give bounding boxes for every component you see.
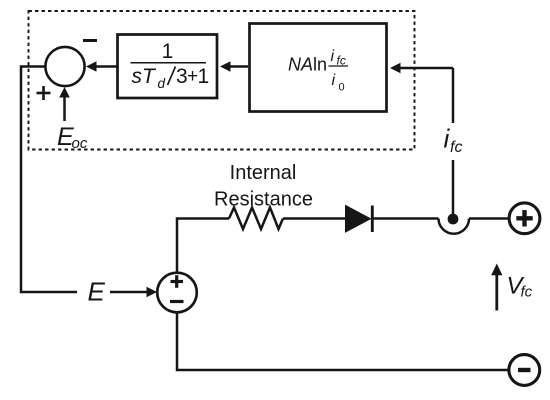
svg-text:1: 1: [198, 65, 210, 88]
svg-text:0: 0: [339, 82, 345, 94]
arrow E into source: [110, 287, 157, 298]
positive terminal: [509, 203, 540, 234]
svg-text:NA: NA: [288, 55, 313, 75]
svg-text:fc: fc: [450, 139, 462, 156]
negative terminal: [509, 355, 540, 386]
arrow from U2 to U1: [220, 61, 248, 72]
controlled voltage source E: [157, 273, 197, 313]
svg-text:ln: ln: [313, 55, 327, 75]
resistor R internal: [229, 208, 283, 230]
arrow Vfc: [491, 264, 502, 311]
wire diode to current tap: [373, 217, 439, 220]
wire resistor to diode: [283, 217, 346, 220]
svg-text:oc: oc: [72, 135, 88, 152]
label Eoc: [57, 123, 88, 152]
arrow Eoc into summing junction: [59, 87, 70, 121]
svg-text:E: E: [88, 277, 106, 307]
svg-text:1: 1: [162, 40, 174, 63]
plus sign at summing junction: [37, 86, 51, 100]
current tap hump: [439, 219, 470, 234]
label E: [88, 277, 106, 307]
diode D1: [346, 206, 373, 233]
svg-text:Internal: Internal: [230, 162, 297, 184]
svg-text:+: +: [187, 66, 198, 87]
wire source top to resistor: [177, 219, 229, 273]
block U1 transfer function 1/(sTd/3+1): [118, 35, 218, 99]
summing junction U3: [45, 47, 84, 86]
block U2 NA ln(ifc/i0): [250, 24, 387, 112]
svg-text:sT: sT: [132, 65, 158, 88]
label Vfc: [507, 273, 533, 301]
svg-text:fc: fc: [521, 284, 533, 301]
svg-text:3: 3: [176, 65, 188, 88]
svg-text:i: i: [332, 72, 336, 89]
bottom wire source to negative terminal: [177, 312, 508, 370]
wire ifc vertical lower segment: [452, 160, 455, 219]
label ifc: [444, 124, 463, 157]
svg-text:i: i: [331, 48, 335, 65]
arrow from U1 to summing junction: [86, 61, 117, 72]
wire tap to positive terminal: [469, 217, 508, 220]
wire summing junction output to left and down: [21, 67, 77, 293]
minus sign at summing junction: [83, 39, 97, 42]
svg-text:Resistance: Resistance: [214, 189, 313, 211]
dashed subsystem box: [29, 11, 415, 150]
arrow ifc wire into U2: [390, 63, 453, 74]
svg-text:d: d: [158, 76, 166, 91]
wire ifc vertical upper segment: [452, 68, 455, 123]
node junction dot: [448, 214, 459, 225]
label Internal Resistance: [214, 162, 313, 211]
